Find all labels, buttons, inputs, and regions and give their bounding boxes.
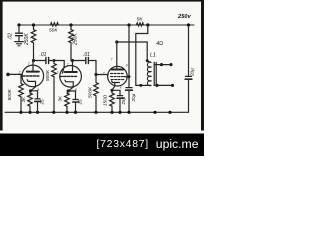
node V3 cathode junction [110, 89, 113, 92]
svg-text:3K: 3K [58, 95, 63, 102]
tube V2 cathode [65, 80, 73, 91]
capacitor C8 20u main filter [186, 75, 192, 77]
node ground rail dots [19, 111, 171, 114]
wire input to V1 grid [8, 73, 22, 75]
tube V1 grid [22, 75, 39, 77]
svg-text:500K: 500K [87, 86, 93, 98]
frame border right [201, 0, 204, 131]
tube V1 plate [32, 61, 34, 72]
svg-text:2: 2 [102, 72, 105, 76]
capacitor C2 25u cathode bypass V1 [31, 91, 38, 99]
svg-text:4Ω: 4Ω [156, 41, 163, 47]
node input terminal [6, 73, 10, 77]
resistor R8 3K cathode V2 [65, 91, 70, 112]
capacitor C5 .01 coupling 2 [85, 58, 87, 64]
node screen/g2 junction [128, 75, 131, 78]
wire to V2 grid [54, 61, 64, 74]
transformer core [153, 62, 155, 85]
tube V1 envelope [22, 65, 44, 87]
node top rail junction dots [17, 23, 190, 26]
capacitor C6 25u cathode bypass V3 [112, 90, 120, 95]
banner upic.me [0, 134, 204, 157]
node C3 output junction [53, 59, 56, 62]
wire V3 plate to transformer primary top [117, 42, 151, 62]
svg-text:500K: 500K [7, 88, 13, 100]
tube V3 cathode [112, 81, 120, 90]
svg-text:9: 9 [126, 64, 128, 68]
svg-text:25µ: 25µ [121, 96, 126, 105]
inductor L1 output transformer primary coil [147, 62, 151, 86]
svg-text:.01: .01 [40, 52, 47, 58]
resistor R1 250K plate load V1 [31, 25, 36, 61]
wire screen feed vertical [128, 25, 130, 87]
wire secondary terminal top [154, 64, 171, 66]
wire B+ staircase to output transformer primary bottom [136, 25, 151, 85]
tube V1 cathode [27, 80, 35, 91]
node V1 cathode junction [29, 89, 32, 92]
tube V2 plate [72, 61, 74, 73]
tube V2 envelope [60, 66, 82, 88]
svg-text:250K: 250K [24, 33, 30, 46]
wire top B+ rail [19, 24, 194, 26]
tube V2 grid [60, 75, 77, 77]
svg-text:L1: L1 [150, 53, 156, 59]
wire to V3 grid [96, 74, 108, 76]
node V2 plate junction [71, 59, 74, 62]
capacitor C4 25u cathode bypass V2 [68, 91, 75, 99]
resistor R7 500K grid V2 [52, 61, 57, 113]
node primary bottom dot [139, 84, 142, 87]
svg-text:50K: 50K [49, 28, 58, 34]
tube V3 envelope output pentode [108, 66, 128, 86]
resistor R5 500K grid leak V1 [19, 74, 24, 112]
node V2 cathode junction [67, 89, 70, 92]
svg-text:250K: 250K [73, 33, 79, 46]
resistor R6 3K cathode V1 [28, 91, 33, 113]
wire bottom ground rail [5, 111, 189, 113]
node V3 grid junction [94, 73, 97, 76]
node V1 plate junction [32, 59, 35, 62]
wire B+ right drop to ground rail [188, 25, 190, 76]
resistor R9 500K grid V3 [94, 75, 99, 113]
resistor R3 250K plate load V2 [69, 25, 74, 61]
svg-text:.02: .02 [8, 33, 14, 40]
capacitor C3 .01 coupling 1 [45, 58, 47, 64]
svg-text:25: 25 [40, 99, 45, 106]
svg-text:7: 7 [111, 58, 113, 62]
svg-text:.01: .01 [83, 52, 90, 58]
node plate wire corner dot [115, 40, 118, 43]
svg-text:150Ω: 150Ω [102, 94, 107, 106]
svg-text:7: 7 [28, 62, 30, 66]
svg-text:20µ: 20µ [131, 93, 136, 102]
node secondary top dots [160, 63, 163, 66]
svg-text:[723x487] upic.me: [723x487] upic.me [97, 137, 199, 151]
tube V3 g2 lead to screen line [124, 76, 129, 78]
frame border top [0, 0, 204, 2]
resistor R4 5K screen dropper (in rail) [136, 23, 143, 26]
node secondary bottom dots [155, 84, 158, 87]
svg-text:x: x [120, 86, 122, 90]
capacitor C1 .02 input bypass [18, 25, 20, 33]
svg-text:250v: 250v [177, 14, 192, 20]
wire plate V2 to coupling cap 2 [71, 60, 86, 62]
capacitor C7 20u screen bypass [126, 87, 132, 89]
frame border left [0, 0, 3, 131]
ground under C1 [15, 41, 23, 43]
svg-text:5K: 5K [137, 16, 144, 22]
svg-text:500K: 500K [45, 69, 51, 81]
resistor R2 50K decoupling (in rail) [50, 23, 58, 27]
resistor R10 150ohm cathode V3 [110, 90, 115, 112]
wire secondary terminal bottom [154, 84, 172, 86]
tube V3 plate [116, 42, 118, 70]
svg-text:20µ: 20µ [190, 68, 195, 77]
wire plate V1 to coupling cap [34, 60, 46, 62]
svg-text:25: 25 [78, 99, 83, 106]
tube V3 grids g3 g2 g1 [111, 73, 125, 75]
svg-text:3K: 3K [21, 96, 26, 103]
svg-text:2: 2 [56, 71, 59, 75]
svg-text:2: 2 [18, 71, 21, 75]
svg-text:7: 7 [67, 62, 69, 66]
